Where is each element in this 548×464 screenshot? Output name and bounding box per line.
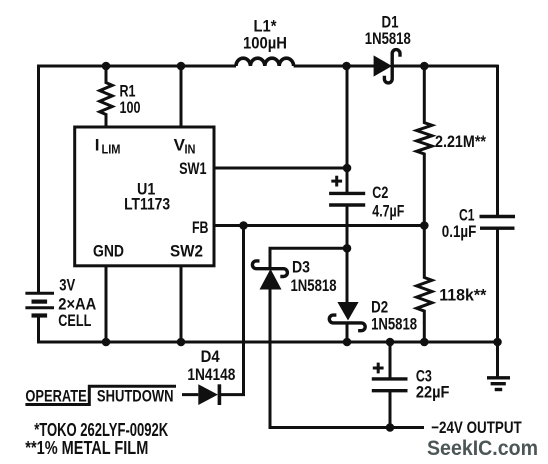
capacitor C3 bbox=[372, 379, 408, 391]
node R1 top junction bbox=[102, 62, 111, 71]
node GND rail junction bbox=[102, 338, 111, 347]
svg-text:LIM: LIM bbox=[102, 141, 121, 156]
svg-text:SeekIC.com: SeekIC.com bbox=[427, 437, 538, 460]
node C3 output junction bbox=[386, 423, 395, 432]
wire D3 branch horizontal bbox=[270, 248, 347, 267]
svg-text:SW2: SW2 bbox=[170, 242, 203, 261]
resistor 2.21M bbox=[417, 66, 432, 227]
wire C2 bottom to D2 bbox=[346, 205, 349, 303]
svg-text:3V: 3V bbox=[59, 276, 76, 295]
wire D3 anode down to output line bbox=[270, 290, 424, 428]
node SW2 rail junction bbox=[177, 338, 186, 347]
wire D1 to top right corner bbox=[392, 65, 498, 68]
op-amp U1 LT1173 box bbox=[75, 127, 214, 266]
svg-text:**1% METAL FILM: **1% METAL FILM bbox=[25, 438, 148, 458]
svg-text:100µH: 100µH bbox=[243, 33, 287, 52]
capacitor C2 bbox=[329, 193, 365, 205]
resistor R1 bbox=[100, 66, 113, 127]
svg-text:D3: D3 bbox=[292, 258, 310, 277]
ground symbol bbox=[487, 342, 510, 390]
node FB/D4 junction bbox=[239, 221, 248, 230]
node D1/2.21M junction bbox=[420, 62, 429, 71]
node 118k rail junction bbox=[420, 338, 429, 347]
svg-text:OPERATE: OPERATE bbox=[25, 386, 86, 405]
wire SW2 pin to rail bbox=[180, 266, 183, 342]
svg-text:2.21M**: 2.21M** bbox=[435, 132, 486, 151]
svg-text:22µF: 22µF bbox=[416, 382, 450, 401]
svg-text:SHUTDOWN: SHUTDOWN bbox=[97, 386, 174, 405]
diode D2 bbox=[329, 302, 365, 331]
svg-text:1N4148: 1N4148 bbox=[187, 365, 235, 384]
plus sign C3 bbox=[373, 363, 384, 374]
pin label VIN bbox=[174, 135, 196, 156]
wire top rail mid bbox=[294, 65, 375, 68]
node C3 rail junction bbox=[386, 338, 395, 347]
svg-text:FB: FB bbox=[192, 218, 209, 237]
node FB/divider junction bbox=[420, 221, 429, 230]
svg-text:1N5818: 1N5818 bbox=[365, 29, 411, 48]
plus sign C2 bbox=[331, 176, 342, 187]
node D2 rail junction bbox=[343, 338, 352, 347]
node SW1/C2 junction bbox=[343, 164, 352, 173]
diode D1 bbox=[374, 50, 400, 83]
wire C3 top bbox=[389, 342, 392, 379]
svg-text:IN: IN bbox=[185, 141, 196, 156]
svg-text:100: 100 bbox=[120, 98, 141, 117]
svg-text:4.7µF: 4.7µF bbox=[372, 201, 404, 220]
wire D2 cathode to rail bbox=[346, 322, 349, 342]
svg-text:*TOKO 262LYF-0092K: *TOKO 262LYF-0092K bbox=[34, 420, 168, 440]
diode D4 bbox=[198, 384, 219, 405]
node VIN top junction bbox=[177, 62, 186, 71]
inductor L1 bbox=[236, 58, 294, 66]
svg-text:I: I bbox=[95, 135, 100, 154]
wire battery to bottom rail bbox=[39, 316, 499, 343]
wire D4 cathode up to FB bbox=[221, 226, 244, 395]
capacitor C1 bbox=[480, 217, 516, 229]
wire C1 bottom to ground rail bbox=[496, 228, 499, 342]
svg-text:−24V OUTPUT: −24V OUTPUT bbox=[431, 418, 522, 437]
svg-text:LT1173: LT1173 bbox=[124, 195, 170, 214]
svg-text:D4: D4 bbox=[201, 347, 220, 366]
svg-text:0.1µF: 0.1µF bbox=[442, 222, 477, 241]
diode D3 bbox=[252, 261, 287, 290]
resistor 118k bbox=[417, 226, 432, 342]
svg-text:1N5818: 1N5818 bbox=[371, 314, 417, 333]
svg-text:GND: GND bbox=[93, 242, 124, 261]
battery 3V bbox=[25, 293, 54, 315]
node L1/D1/SW1 junction bbox=[342, 62, 351, 71]
wire right vertical to C1 bbox=[496, 65, 499, 216]
node rail right corner junction bbox=[493, 338, 502, 347]
svg-text:CELL: CELL bbox=[58, 311, 91, 330]
wire GND pin to rail bbox=[105, 266, 108, 342]
operate/shutdown step waveform bbox=[25, 386, 176, 404]
wire top rail left segment bbox=[39, 66, 237, 293]
wire D4 anode stub bbox=[182, 393, 198, 396]
wire FB line bbox=[214, 224, 424, 227]
svg-text:118k**: 118k** bbox=[439, 286, 486, 305]
node C2/D3 junction bbox=[343, 244, 352, 253]
svg-text:1N5818: 1N5818 bbox=[291, 276, 337, 295]
wire C2 vertical from top rail bbox=[346, 66, 349, 193]
wire C3 bottom to output line bbox=[389, 391, 392, 428]
wire SW1 pin to C2 line bbox=[214, 167, 347, 170]
svg-text:C2: C2 bbox=[372, 183, 388, 202]
svg-text:SW1: SW1 bbox=[179, 159, 207, 178]
wire VIN to top rail bbox=[180, 66, 183, 127]
pin label ILIM bbox=[95, 135, 121, 156]
